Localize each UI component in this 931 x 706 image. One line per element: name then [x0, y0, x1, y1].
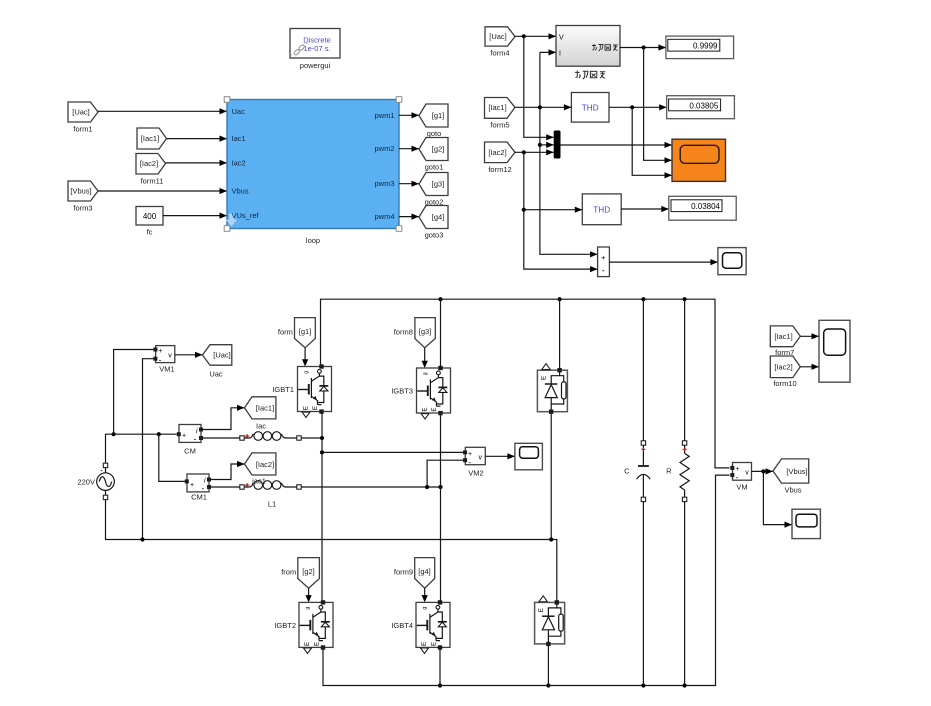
svg-text:form: form — [278, 328, 293, 337]
from tag form3 [Vbus] — [68, 181, 98, 213]
svg-text:+: + — [190, 482, 194, 489]
node Uac junction — [522, 34, 526, 38]
svg-text:from: from — [281, 568, 296, 577]
svg-text:[g2]: [g2] — [432, 145, 445, 154]
svg-text:pwm3: pwm3 — [374, 179, 394, 188]
svg-text:pwm1: pwm1 — [374, 111, 394, 120]
svg-text:400: 400 — [143, 212, 157, 221]
wire inductor to leg A — [301, 437, 322, 439]
svg-text:[g3]: [g3] — [432, 180, 445, 189]
svg-text:L1: L1 — [268, 500, 276, 509]
scope5 — [792, 509, 820, 538]
svg-text:v: v — [168, 353, 172, 360]
svg-text:VUs_ref: VUs_ref — [232, 211, 260, 220]
power factor block 功率因数 — [556, 26, 620, 80]
mux — [554, 131, 561, 159]
from tag form8 [g3] — [394, 318, 436, 348]
svg-text:-: - — [468, 457, 471, 467]
svg-text:[Iac2]: [Iac2] — [140, 159, 158, 168]
svg-text:form1: form1 — [73, 125, 92, 134]
wire VM2 minus — [427, 460, 464, 487]
svg-text:220V: 220V — [77, 478, 95, 487]
svg-text:Uac: Uac — [232, 107, 246, 116]
goto tag [g4] — [419, 206, 448, 240]
wire to VM1 plus — [114, 350, 154, 435]
svg-text:form11: form11 — [141, 177, 164, 186]
svg-text:THD: THD — [582, 103, 599, 112]
transistor IGBT2 — [299, 600, 333, 653]
svg-text:CM1: CM1 — [191, 493, 207, 502]
node VM2 minus branch — [425, 485, 429, 489]
node bottom bus R — [683, 683, 687, 687]
node top bus leg B — [438, 297, 442, 301]
svg-text:[Uac]: [Uac] — [489, 32, 507, 41]
wire form12 to mux in3 — [515, 151, 554, 153]
top DC bus — [321, 299, 730, 468]
svg-text:[g1]: [g1] — [299, 327, 312, 336]
wire diode1 bottom to mid bus — [550, 412, 552, 540]
svg-text:C: C — [624, 467, 630, 476]
svg-text:pwm4: pwm4 — [374, 212, 394, 221]
node leg A inductor junction — [320, 436, 324, 440]
svg-text:[Iac1]: [Iac1] — [141, 134, 159, 143]
svg-text:I: I — [559, 51, 561, 58]
svg-text:IGBT1: IGBT1 — [272, 385, 294, 394]
display 0.03804 — [669, 196, 736, 220]
svg-text:0.03804: 0.03804 — [691, 202, 720, 211]
from tag from [g2] — [281, 558, 319, 589]
diode D2 — [535, 596, 565, 646]
svg-text:-: - — [159, 355, 162, 365]
svg-text:[g4]: [g4] — [432, 213, 445, 222]
inductor L1 — [240, 481, 301, 509]
svg-text:[Iac1]: [Iac1] — [774, 332, 792, 341]
svg-text:fc: fc — [147, 228, 153, 237]
svg-text:[Vbus]: [Vbus] — [70, 187, 91, 196]
svg-text:form10: form10 — [773, 379, 796, 388]
svg-text:Iac1: Iac1 — [232, 134, 246, 143]
svg-text:[g2]: [g2] — [302, 567, 315, 576]
node Iac1 mux branch — [538, 143, 542, 147]
display 0.03805 — [667, 96, 735, 119]
wire form5 to THD — [515, 106, 571, 108]
svg-text:0.03805: 0.03805 — [689, 101, 718, 110]
wire fc to loop — [163, 215, 227, 217]
wire VM2 to scope3 — [485, 455, 515, 457]
goto tag Uac — [203, 345, 232, 379]
svg-text:[Iac2]: [Iac2] — [488, 148, 506, 157]
voltage measurement VM — [730, 463, 751, 492]
wire form10 to scope6 — [800, 366, 819, 368]
from tag form7 [Iac1] — [770, 326, 800, 357]
node top bus C — [641, 297, 645, 301]
voltage measurement VM1 — [153, 346, 174, 374]
goto tag [g1] — [419, 104, 448, 138]
wire THD out down to scope in3 — [632, 107, 672, 175]
goto tag [g3] — [419, 173, 448, 207]
wire PF out down to scope in2 — [644, 48, 672, 161]
terminal source bottom — [103, 495, 107, 499]
THD block U1 — [571, 93, 609, 123]
svg-text:pwm2: pwm2 — [374, 144, 394, 153]
node leg A VM2 branch — [320, 450, 324, 454]
svg-text:-: - — [202, 483, 205, 493]
svg-text:[Iac1]: [Iac1] — [256, 404, 274, 413]
THD block 2 — [582, 194, 621, 225]
svg-text:IGBT2: IGBT2 — [274, 621, 296, 630]
svg-text:CM: CM — [184, 447, 196, 456]
from tag form1 [Uac] — [68, 102, 98, 134]
current measurement CM — [177, 425, 203, 456]
svg-text:form3: form3 — [73, 204, 92, 213]
goto tag Vbus — [773, 459, 809, 495]
svg-text:loop: loop — [306, 236, 320, 245]
wire top bus to diode1 — [559, 299, 561, 368]
node THD out junction — [630, 105, 634, 109]
transistor IGBT3 — [417, 366, 451, 419]
wire VM to goto Vbus — [752, 470, 774, 472]
svg-text:form5: form5 — [490, 121, 509, 130]
svg-text:[Iac2]: [Iac2] — [774, 363, 792, 372]
svg-text:form9: form9 — [394, 568, 413, 577]
wire THD to display2 — [609, 106, 667, 108]
node top bus diode1 — [558, 297, 562, 301]
current measurement CM1 — [185, 474, 211, 502]
wire Vbus to loop — [98, 190, 227, 192]
svg-text:[Uac]: [Uac] — [213, 351, 231, 360]
wire THD2 to display3 — [621, 208, 669, 210]
node Iac1 junction — [538, 105, 542, 109]
node PF out junction — [642, 45, 646, 49]
wire leg B mid — [440, 413, 442, 600]
diode D1 — [537, 364, 567, 414]
svg-text:[g4]: [g4] — [418, 567, 431, 576]
svg-text:R: R — [666, 467, 672, 476]
svg-text:-: - — [194, 434, 197, 444]
wire form1 to loop Uac — [98, 110, 227, 112]
voltage measurement VM2 — [463, 447, 485, 477]
svg-text:IGBT3: IGBT3 — [391, 387, 413, 396]
wire pwm3 to goto2 — [399, 183, 419, 185]
wire leg A mid — [321, 412, 323, 601]
goto tag [g2] — [419, 138, 448, 172]
wire leg A to VM2 plus — [322, 451, 464, 453]
svg-text:form12: form12 — [488, 165, 511, 174]
wire IGBT4 bottom — [439, 649, 441, 686]
wire g2 to IGBT2 gate — [308, 588, 310, 599]
wire pwm1 to goto — [399, 114, 419, 116]
wire source top up to main node — [106, 434, 177, 473]
svg-text:1e-07 s.: 1e-07 s. — [303, 44, 330, 53]
display 0.9999 — [666, 36, 734, 59]
wire source bottom down to mid bus — [106, 490, 557, 602]
powergui block — [290, 29, 340, 71]
svg-text:goto1: goto1 — [425, 163, 444, 172]
wire Iac1 to mux in2 — [540, 144, 554, 146]
svg-text:+: + — [601, 253, 606, 262]
wire inductor L1 to leg B — [301, 486, 440, 488]
svg-text:[g1]: [g1] — [432, 111, 445, 120]
svg-text:Uac: Uac — [209, 370, 223, 379]
wire CM1 minus to inductor L1 — [211, 486, 240, 488]
transistor IGBT1 — [298, 364, 332, 417]
add block (sum) — [598, 247, 610, 277]
from tag [Iac1] — [137, 128, 167, 149]
wire VM out to scope5 — [763, 471, 792, 524]
svg-text:goto3: goto3 — [425, 231, 444, 240]
svg-text:IGBT4: IGBT4 — [391, 621, 413, 630]
svg-text:v: v — [479, 455, 483, 462]
scope (orange) — [672, 139, 726, 181]
from tag form11 [Iac2] — [136, 154, 166, 186]
wire form4 to PF V input — [515, 35, 556, 37]
node bottom bus C — [641, 683, 645, 687]
wire pwm2 to goto1 — [399, 148, 419, 150]
wire PF output to display — [620, 47, 666, 49]
node bottom bus IGBT4 — [438, 683, 442, 687]
wire CM1 i to goto Iac2 — [211, 464, 245, 480]
wire mux out to scope — [561, 144, 673, 146]
svg-text:form4: form4 — [490, 49, 509, 58]
svg-text:VM1: VM1 — [159, 365, 174, 374]
svg-text:Vbus: Vbus — [232, 187, 249, 196]
bottom bus — [323, 475, 730, 685]
svg-text:THD: THD — [593, 205, 610, 214]
svg-text:[Vbus]: [Vbus] — [786, 467, 807, 476]
svg-text:powergui: powergui — [300, 61, 331, 70]
wire CM i to goto Iac1 — [203, 408, 245, 430]
wire Uac down to mux in1 — [524, 36, 554, 137]
terminal source top — [103, 463, 107, 467]
svg-text:-: - — [602, 266, 605, 276]
from tag form12 [Iac2] — [485, 142, 516, 174]
node VM1 minus on mid bus — [140, 537, 144, 541]
scope4 — [718, 248, 746, 275]
scope3 — [515, 443, 543, 470]
wire g4 to IGBT4 gate — [424, 588, 426, 599]
svg-text:0.9999: 0.9999 — [693, 42, 718, 51]
svg-text:[Uac]: [Uac] — [72, 108, 90, 117]
wire Iac1 to loop — [167, 138, 228, 140]
node bottom bus diode2 — [546, 683, 550, 687]
svg-text:Vbus: Vbus — [784, 486, 801, 495]
svg-text:Iac: Iac — [256, 421, 266, 430]
transistor IGBT4 — [416, 600, 450, 653]
wire g1 to IGBT1 gate — [304, 348, 306, 363]
wire to CM1 plus — [159, 434, 186, 481]
wire VM1 minus down to mid bus — [143, 359, 154, 540]
from tag form [g1] — [278, 318, 315, 348]
svg-text:-: - — [736, 472, 739, 482]
wire top bus to IGBT3 — [440, 299, 442, 366]
wire form7 to scope6 — [800, 335, 819, 337]
wire diode2 bottom — [547, 644, 549, 686]
svg-text:Iac2: Iac2 — [232, 158, 246, 167]
svg-text:v: v — [745, 470, 749, 477]
from tag form9 [g4] — [394, 558, 435, 589]
wire CM minus to inductor — [203, 437, 240, 439]
wire pwm4 to goto3 — [399, 216, 419, 218]
node VM1 plus branch — [112, 432, 116, 436]
svg-text:form8: form8 — [394, 328, 413, 337]
node CM1 branch — [157, 432, 161, 436]
inductor iac — [240, 432, 301, 441]
svg-text:goto: goto — [427, 129, 442, 138]
goto tag Iac [Iac1] — [245, 397, 276, 431]
svg-text:+: + — [182, 433, 186, 440]
constant block fc 400 — [136, 207, 163, 237]
node VM out — [761, 469, 765, 473]
from tag form10 [Iac2] — [770, 356, 800, 388]
svg-text:VM2: VM2 — [468, 469, 483, 478]
AC source 220V — [77, 470, 114, 491]
from tag form4 [Uac] — [485, 27, 515, 58]
subsystem loop — [224, 97, 402, 245]
capacitor C — [624, 299, 650, 685]
node diode1 mid bus — [549, 537, 553, 541]
svg-text:[g3]: [g3] — [419, 327, 432, 336]
wire Iac2 to loop — [166, 162, 228, 164]
resistor R — [666, 299, 689, 685]
svg-text:V: V — [559, 34, 564, 41]
goto tag iac1 [Iac2] — [245, 453, 276, 485]
wire Iac1 vertical to I input and down to add block — [540, 52, 598, 254]
from tag form5 [Iac1] — [485, 98, 516, 130]
node leg B junction — [438, 485, 442, 489]
wire VM1 to goto Uac — [175, 354, 203, 356]
node Iac2 junction — [522, 150, 526, 154]
scope6 — [819, 320, 850, 382]
wire Iac2 down to THD2 and add block — [524, 152, 598, 269]
svg-text:[Iac1]: [Iac1] — [488, 103, 506, 112]
svg-text:[Iac2]: [Iac2] — [256, 460, 274, 469]
wire add to scope4 — [609, 261, 718, 263]
node top bus R — [683, 297, 687, 301]
svg-text:VM: VM — [736, 483, 747, 492]
wire g3 to IGBT3 gate — [424, 348, 426, 365]
